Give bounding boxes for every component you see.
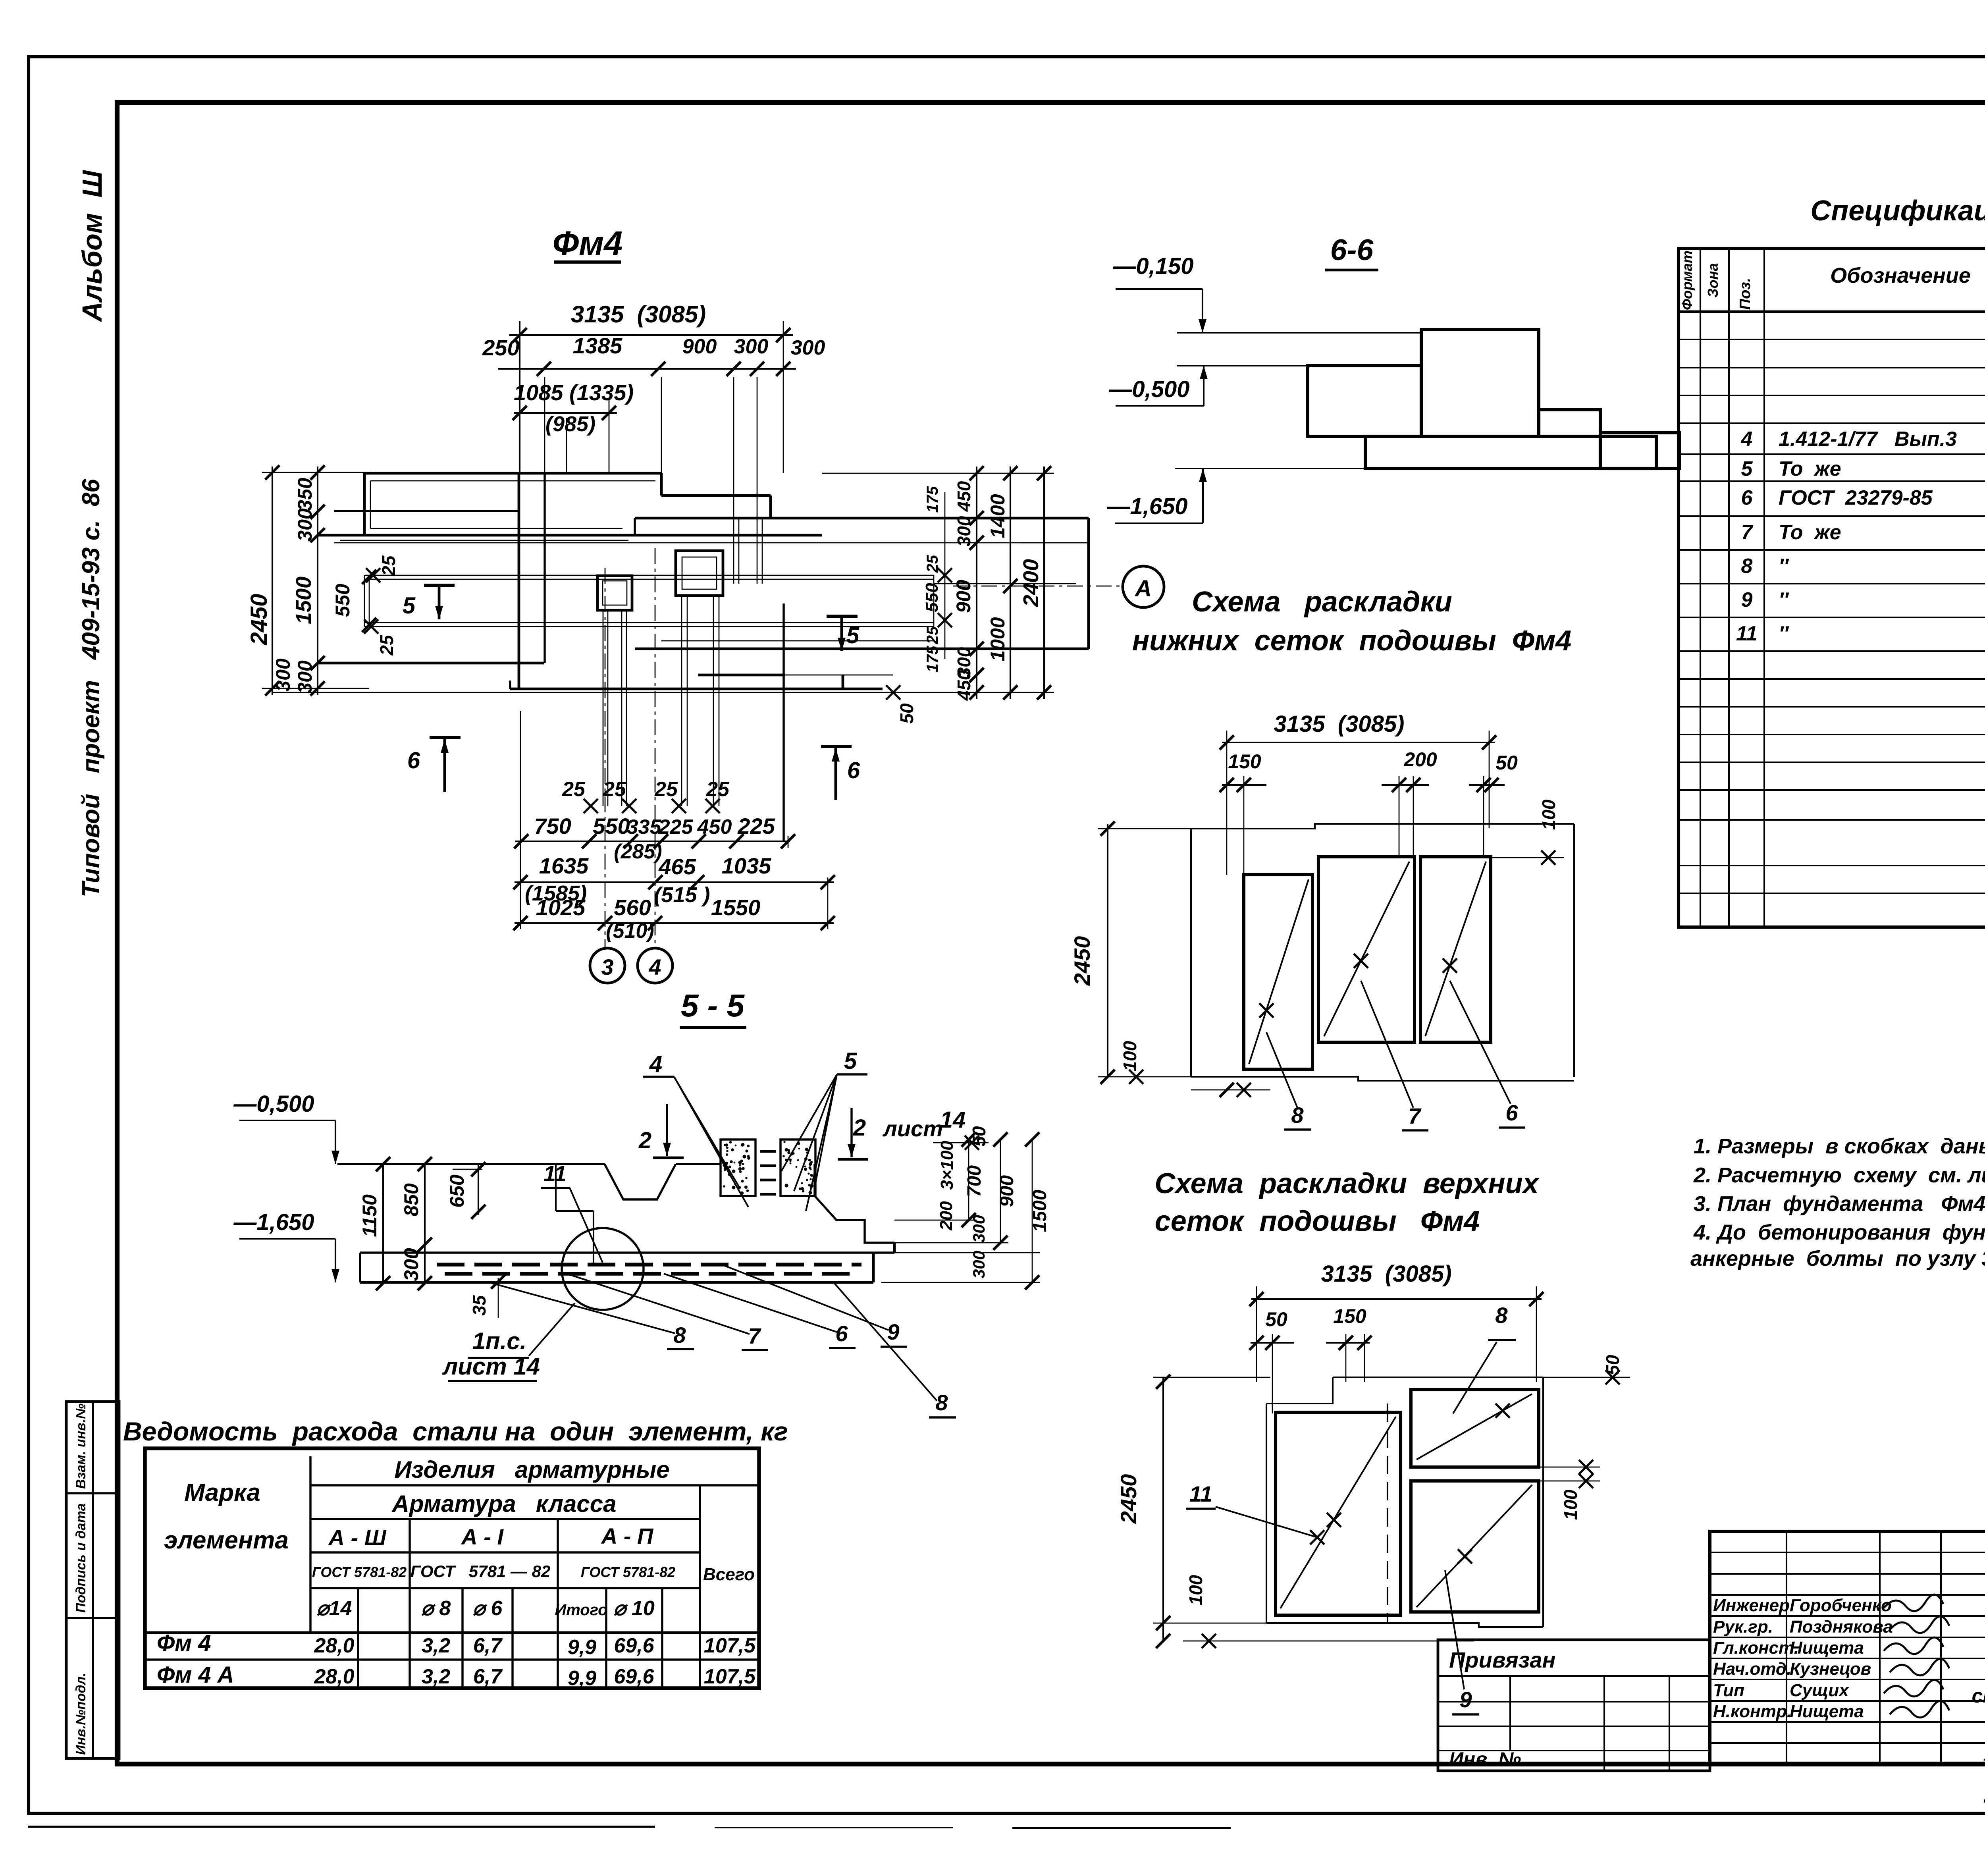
svg-text:550: 550 [593, 814, 630, 839]
svg-text:850: 850 [400, 1183, 422, 1217]
svg-text:4: 4 [648, 954, 661, 979]
svg-text:150: 150 [1333, 1305, 1366, 1327]
svg-text:8: 8 [1495, 1303, 1508, 1328]
svg-text:Фм4: Фм4 [553, 225, 623, 262]
svg-text:7: 7 [1741, 521, 1754, 544]
5-5 detail circle [562, 1228, 644, 1310]
svg-text:5: 5 [846, 623, 860, 648]
svg-text:25: 25 [562, 778, 586, 801]
svg-text:6,7: 6,7 [473, 1634, 503, 1657]
svg-text:5: 5 [844, 1048, 857, 1074]
svg-text:900: 900 [952, 580, 975, 613]
svg-text:Формат: Формат [1679, 251, 1695, 310]
svg-text:25: 25 [376, 634, 397, 656]
svg-text:175: 175 [924, 646, 941, 672]
plan right dim chain 1400 1000 [1010, 467, 1011, 699]
svg-text:Гл.конст.: Гл.конст. [1713, 1638, 1799, 1658]
5-5 bottom meshes thick dashed [437, 1263, 861, 1267]
svg-text:175: 175 [924, 486, 941, 513]
svg-text:25: 25 [378, 555, 399, 576]
svg-text:25: 25 [603, 778, 626, 801]
schema2 mesh 8 upper right [1411, 1390, 1539, 1467]
svg-text:650: 650 [446, 1174, 468, 1208]
svg-text:300: 300 [734, 335, 769, 358]
svg-text:⌀ 10: ⌀ 10 [613, 1597, 655, 1620]
plan right extensions [822, 473, 1054, 474]
svg-text:300: 300 [294, 660, 316, 694]
schema1 label 7 [1361, 981, 1413, 1108]
svg-text:550: 550 [331, 584, 354, 617]
svg-text:1035: 1035 [722, 853, 771, 878]
svg-text:2450: 2450 [246, 594, 272, 645]
privyazan box [1438, 1640, 1710, 1771]
svg-text:6: 6 [835, 1321, 848, 1346]
svg-text:1500: 1500 [1029, 1190, 1050, 1232]
schema2 mesh 11 [1276, 1412, 1401, 1615]
svg-text:9: 9 [887, 1319, 899, 1344]
5-5 leader labels 8 7 6 9 8 [489, 1282, 675, 1333]
svg-text:107,5: 107,5 [704, 1665, 756, 1688]
svg-text:2: 2 [638, 1128, 651, 1153]
svg-text:50: 50 [896, 703, 917, 724]
spec table grid [1679, 249, 1985, 927]
svg-text:А - П: А - П [601, 1523, 654, 1548]
plan bottom dim row 750 550 335 225 450 225 [515, 841, 790, 842]
svg-text:5 - 5: 5 - 5 [681, 988, 745, 1023]
svg-text:Горобченко: Горобченко [1790, 1596, 1892, 1615]
svg-text:(985): (985) [545, 412, 595, 436]
svg-text:То же: То же [1779, 521, 1841, 544]
svg-text:250: 250 [482, 335, 519, 360]
svg-text:6: 6 [407, 748, 420, 773]
svg-text:(515 ): (515 ) [654, 883, 710, 907]
svg-text:4. До бетонирования фундамен: 4. До бетонирования фундамента заложить [1693, 1220, 1985, 1244]
svg-text:″: ″ [1779, 588, 1789, 611]
5-5 mesh dashes between columns [760, 1150, 776, 1153]
title block outer [1710, 1531, 1985, 1764]
svg-text:6: 6 [1505, 1100, 1518, 1125]
svg-text:Привязан: Привязан [1449, 1647, 1555, 1672]
svg-text:1025: 1025 [536, 895, 586, 920]
svg-text:Марка: Марка [184, 1479, 260, 1506]
svg-text:900: 900 [682, 335, 717, 358]
svg-text:5: 5 [403, 593, 416, 619]
svg-text:300: 300 [791, 336, 825, 359]
svg-text:450: 450 [697, 816, 732, 839]
svg-text:1п.с.: 1п.с. [472, 1328, 527, 1354]
svg-text:Нищета: Нищета [1790, 1702, 1864, 1721]
svg-text:1500: 1500 [292, 576, 316, 624]
svg-text:Схема раскладки верхних: Схема раскладки верхних [1154, 1168, 1540, 1199]
svg-text:11: 11 [543, 1161, 567, 1186]
schema2 label 9 [1445, 1570, 1464, 1689]
svg-text:6: 6 [847, 758, 860, 783]
svg-text:ГОСТ 5781-82: ГОСТ 5781-82 [312, 1564, 407, 1580]
svg-text:550: 550 [922, 583, 942, 612]
svg-text:1150: 1150 [358, 1194, 381, 1237]
svg-text:Инв. №: Инв. № [1449, 1748, 1521, 1770]
plan right dim chain 450 300 900 300 450 [976, 467, 977, 699]
svg-text:Взам. инв.№: Взам. инв.№ [73, 1404, 89, 1489]
svg-text:Рук.гр.: Рук.гр. [1713, 1617, 1773, 1637]
5-5 top surface and outline [337, 1163, 605, 1165]
plan bottom dim row 1635 465 1035 [515, 881, 834, 883]
svg-text:8: 8 [1291, 1103, 1304, 1128]
svg-text:335: 335 [627, 816, 662, 839]
svg-text:69,6: 69,6 [614, 1634, 654, 1657]
plan left dim chain 350 300 1500 300 [317, 467, 318, 695]
svg-text:225: 225 [658, 816, 694, 839]
schema1 mesh 7 [1318, 857, 1415, 1042]
svg-text:Нищета: Нищета [1790, 1638, 1864, 1658]
plan axis circle A [1123, 566, 1164, 607]
plan wing inner offset lines [370, 480, 655, 482]
svg-text:Итого: Итого [555, 1601, 607, 1619]
schema1 mesh 6 [1420, 857, 1491, 1042]
svg-text:3,2: 3,2 [422, 1665, 450, 1688]
svg-text:9,9: 9,9 [568, 1636, 596, 1659]
svg-text:300: 300 [969, 1215, 988, 1243]
svg-text:Нач.отд.: Нач.отд. [1713, 1659, 1791, 1679]
plan section mark 6 left [430, 736, 461, 739]
svg-text:анкерные болты по узлу 3 ли: анкерные болты по узлу 3 лист9 [1690, 1247, 1985, 1271]
svg-text:1000: 1000 [987, 617, 1009, 661]
svg-text:Фм 4 А: Фм 4 А [157, 1662, 234, 1688]
plan axis circle 4 [638, 948, 673, 983]
svg-text:50: 50 [1495, 752, 1518, 774]
svg-text:Фм 4: Фм 4 [157, 1630, 211, 1656]
svg-text:1.412-1/77 Вып.3: 1.412-1/77 Вып.3 [1779, 428, 1957, 451]
svg-text:4: 4 [1741, 428, 1753, 451]
svg-text:—0,150: —0,150 [1112, 253, 1193, 279]
plan bottom 25 labels and crosses [584, 799, 598, 813]
svg-text:Н.контр.: Н.контр. [1713, 1702, 1792, 1721]
svg-text:8: 8 [1741, 555, 1753, 578]
svg-text:2. Расчетную схему см. лист: 2. Расчетную схему см. лист 22 [1693, 1163, 1985, 1187]
6-6 stepped foundation blocks [1365, 436, 1656, 469]
svg-text:—1,650: —1,650 [233, 1209, 314, 1235]
schema2 bottom line and 100 [1153, 1623, 1270, 1624]
svg-text:⌀14: ⌀14 [316, 1597, 352, 1620]
schema1 label 6 [1450, 981, 1511, 1104]
svg-text:6: 6 [1741, 486, 1753, 509]
svg-text:900: 900 [996, 1175, 1018, 1207]
svg-text:3. План фундамента Фм4Я см: 3. План фундамента Фм4Я см. лист4 [1694, 1192, 1985, 1216]
svg-text:465: 465 [658, 854, 696, 879]
svg-text:Спецификация Фм4 ; Фм4А: Спецификация Фм4 ; Фм4А [1810, 195, 1985, 227]
svg-text:″: ″ [1779, 622, 1789, 645]
svg-text:300: 300 [969, 1251, 988, 1278]
svg-text:А - Ш: А - Ш [328, 1525, 386, 1550]
svg-text:200: 200 [937, 1201, 956, 1231]
schema2 mesh 9 lower right [1411, 1481, 1539, 1612]
plan right small chain 175 25 550 25 175 [944, 492, 946, 659]
svg-text:750: 750 [534, 814, 571, 839]
svg-text:28,0: 28,0 [314, 1665, 354, 1688]
5-5 anchor columns speckled [721, 1139, 755, 1196]
svg-text:9,9: 9,9 [568, 1667, 596, 1690]
title block signatures squiggles [1884, 1595, 1949, 1718]
svg-text:—0,500: —0,500 [1108, 376, 1189, 402]
svg-text:ГОСТ 23279-85: ГОСТ 23279-85 [1779, 486, 1933, 509]
svg-text:450: 450 [954, 670, 974, 701]
svg-text:То же: То же [1779, 457, 1841, 480]
schema2 outline [1333, 1377, 1543, 1378]
svg-text:25: 25 [924, 555, 941, 573]
svg-text:7: 7 [748, 1323, 761, 1348]
svg-text:2400: 2400 [1019, 559, 1043, 607]
steel table grid [145, 1448, 759, 1688]
5-5 bottom slab [360, 1251, 894, 1253]
schema1 slab outline [1191, 824, 1574, 829]
svg-text:3135 (3085): 3135 (3085) [571, 301, 706, 328]
svg-text:1385: 1385 [573, 333, 622, 358]
svg-text:3135 (3085): 3135 (3085) [1274, 711, 1405, 737]
svg-text:560: 560 [614, 895, 651, 920]
svg-text:⌀ 6: ⌀ 6 [473, 1597, 503, 1620]
svg-text:Изделия арматурные: Изделия арматурные [394, 1456, 669, 1483]
5-5 dim 650 [478, 1164, 479, 1215]
svg-text:Арматура класса: Арматура класса [391, 1490, 617, 1517]
svg-text:Сущих: Сущих [1790, 1681, 1849, 1700]
svg-text:6,7: 6,7 [473, 1665, 503, 1688]
svg-text:⌀ 8: ⌀ 8 [421, 1597, 451, 1620]
svg-text:нижних сеток подошвы Фм4: нижних сеток подошвы Фм4 [1132, 625, 1572, 657]
svg-text:″: ″ [1779, 555, 1789, 578]
plan bottom dim row 1025 560 1550 [515, 922, 834, 924]
5-5 left dims 1150 850 300 [382, 1164, 384, 1283]
svg-text:1550: 1550 [711, 895, 761, 920]
svg-text:Типовой проект 409-15-93 с: Типовой проект 409-15-93 с. 86 [77, 479, 105, 897]
svg-text:1400: 1400 [987, 494, 1009, 538]
svg-text:69,6: 69,6 [614, 1665, 654, 1688]
svg-text:6-6: 6-6 [1330, 233, 1374, 266]
stray scan line bottom [28, 1826, 655, 1828]
schema2 right dim 100 [1539, 1467, 1600, 1468]
svg-text:107,5: 107,5 [704, 1634, 756, 1657]
svg-text:Кузнецов: Кузнецов [1790, 1659, 1871, 1679]
svg-text:50: 50 [1265, 1308, 1287, 1330]
svg-text:200: 200 [1403, 748, 1437, 771]
svg-text:—0,500: —0,500 [233, 1091, 314, 1117]
6-6 reference lines [1177, 332, 1421, 334]
svg-text:2: 2 [853, 1115, 866, 1141]
plan footprint outline [364, 472, 661, 475]
svg-text:9: 9 [1459, 1687, 1472, 1712]
svg-text:лист 14: лист 14 [442, 1353, 540, 1380]
svg-text:1635: 1635 [539, 853, 589, 878]
svg-text:100: 100 [1185, 1575, 1206, 1605]
svg-text:2450: 2450 [1116, 1474, 1141, 1524]
svg-text:—1,650: —1,650 [1106, 494, 1187, 519]
plan section mark 6 right [821, 745, 852, 748]
svg-text:сеток подошвы Фм4: сеток подошвы Фм4 [1155, 1205, 1480, 1237]
svg-text:225: 225 [737, 814, 775, 839]
svg-text:300: 300 [272, 658, 294, 692]
svg-text:элемента: элемента [164, 1527, 289, 1554]
svg-text:3: 3 [601, 954, 613, 979]
svg-text:Обозначение: Обозначение [1830, 264, 1971, 287]
svg-text:11: 11 [1189, 1481, 1212, 1506]
svg-text:700: 700 [964, 1165, 985, 1197]
svg-text:28,0: 28,0 [314, 1634, 354, 1657]
plan axis circle 3 [590, 948, 625, 983]
title block signature grid [1710, 1552, 1985, 1553]
svg-text:(510): (510) [606, 920, 654, 943]
svg-text:Альбом Ш: Альбом Ш [77, 170, 108, 322]
svg-text:35: 35 [469, 1295, 490, 1316]
plan axis dash-dot lines [605, 568, 606, 948]
svg-text:300: 300 [294, 508, 316, 542]
svg-text:450: 450 [954, 481, 974, 512]
svg-text:150: 150 [1228, 750, 1261, 773]
plan mesh leader verticals [603, 610, 604, 806]
svg-text:(285): (285) [614, 840, 662, 863]
svg-text:3,2: 3,2 [422, 1634, 450, 1657]
schema1 mesh 8 [1244, 875, 1312, 1069]
svg-text:Подпись и дата: Подпись и дата [73, 1503, 89, 1613]
svg-text:складом заполнителей: складом заполнителей [1972, 1685, 1985, 1707]
svg-text:1. Размеры в скобках даны д: 1. Размеры в скобках даны для tн = −20°С… [1694, 1134, 1985, 1158]
svg-text:5: 5 [1741, 457, 1753, 480]
svg-text:А - I: А - I [461, 1524, 504, 1549]
svg-text:25: 25 [654, 778, 678, 801]
svg-text:2450: 2450 [1070, 936, 1095, 986]
plan column square 1 [597, 576, 632, 610]
svg-text:9: 9 [1741, 588, 1753, 611]
plan bottom extension verticals [520, 711, 521, 929]
svg-text:Всего: Всего [703, 1565, 755, 1584]
schema1 label 8 [1266, 1032, 1297, 1108]
svg-text:25: 25 [924, 626, 941, 644]
svg-text:3×100: 3×100 [937, 1141, 957, 1190]
svg-text:ГОСТ 5781-82: ГОСТ 5781-82 [581, 1564, 675, 1580]
svg-text:Ведомость расхода стали на: Ведомость расхода стали на один элемент,… [123, 1417, 788, 1446]
svg-text:Схема раскладки: Схема раскладки [1192, 586, 1452, 618]
svg-text:3135 (3085): 3135 (3085) [1321, 1261, 1452, 1287]
svg-text:50: 50 [1602, 1355, 1623, 1375]
svg-text:ГОСТ 5781 — 82: ГОСТ 5781 — 82 [410, 1562, 551, 1581]
plan top dim extension lines [544, 377, 545, 473]
svg-text:350: 350 [294, 478, 316, 511]
plan right dim 2400 [1043, 467, 1045, 699]
svg-text:лист: лист [882, 1116, 943, 1141]
schema1 bottom ticks [1220, 1083, 1234, 1097]
svg-text:А: А [1134, 576, 1152, 602]
svg-text:11: 11 [1736, 622, 1758, 645]
svg-text:25: 25 [706, 778, 730, 801]
5-5 right dims [933, 1142, 989, 1143]
svg-text:1085 (1335): 1085 (1335) [514, 380, 634, 405]
svg-text:7: 7 [1408, 1103, 1422, 1128]
svg-text:8: 8 [935, 1390, 948, 1415]
svg-text:4: 4 [649, 1051, 662, 1077]
svg-text:100: 100 [1120, 1041, 1140, 1071]
svg-text:Позднякова: Позднякова [1790, 1617, 1893, 1637]
plan section mark 5 upper [424, 584, 455, 587]
svg-text:8: 8 [673, 1323, 686, 1348]
svg-text:100: 100 [1538, 799, 1559, 830]
svg-text:100: 100 [1560, 1489, 1581, 1520]
svg-text:Тип: Тип [1713, 1681, 1744, 1700]
left margin stamp strip [66, 1402, 119, 1758]
page number band line [117, 100, 1985, 104]
svg-text:14: 14 [940, 1107, 966, 1133]
plan column square 2 [676, 551, 723, 596]
svg-text:Инв.№подл.: Инв.№подл. [73, 1673, 89, 1755]
svg-text:Зона: Зона [1705, 263, 1721, 298]
plan long thin lines [272, 692, 698, 693]
svg-text:Инженер: Инженер [1713, 1596, 1790, 1615]
plan section mark 5 lower [827, 615, 858, 618]
schema2 dashed axis [1387, 1404, 1388, 1622]
svg-text:Поз.: Поз. [1737, 278, 1754, 310]
svg-text:300: 300 [954, 516, 974, 546]
